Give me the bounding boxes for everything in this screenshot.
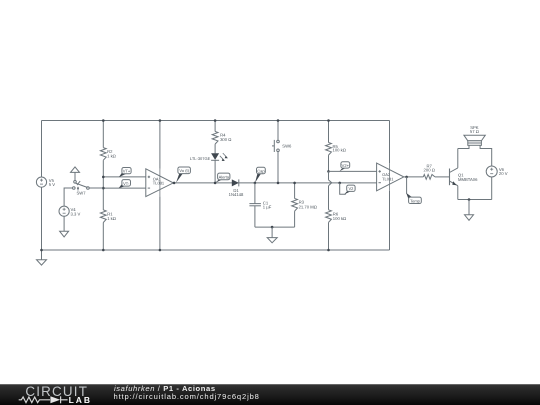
wire R5/R6 column with hop over main line — [329, 171, 332, 209]
svg-text:V2+: V2+ — [342, 163, 350, 168]
resistor R2 — [100, 148, 115, 161]
wire C1 branch upper — [254, 183, 256, 204]
svg-text:SW7: SW7 — [76, 191, 86, 196]
capacitor C1 — [249, 201, 271, 210]
svg-text:MMBTA06: MMBTA06 — [458, 177, 478, 182]
node R3 junction on main line — [293, 182, 296, 185]
svg-text:VT-: VT- — [123, 181, 130, 186]
wire R5/R6 column upper — [328, 121, 330, 143]
svg-text:VT+: VT+ — [123, 169, 131, 174]
svg-text:57 Ω: 57 Ω — [470, 129, 479, 134]
resistor R1 — [100, 210, 116, 223]
wire SW6 branch upper — [277, 121, 279, 141]
resistor R3 — [292, 199, 317, 212]
node OA1 power bottom junction — [159, 249, 162, 252]
wire SW6 branch lower — [277, 152, 279, 183]
svg-text:SW6: SW6 — [282, 144, 292, 149]
switch SW6 (pushbutton) — [272, 140, 292, 152]
node V2+ junction — [327, 170, 330, 173]
wire R4 to LED — [214, 144, 216, 153]
svg-text:V2: V2 — [348, 186, 354, 191]
wire LED branch upper (to R4) — [214, 121, 216, 132]
wire C1/R3 bottom link — [255, 226, 295, 228]
wire VT- stub to OA1 - — [103, 187, 146, 189]
svg-text:300 Ω: 300 Ω — [220, 137, 231, 142]
wire top rail — [42, 120, 390, 122]
wire VT+ stub to OA1 + — [103, 176, 146, 178]
ground (main, bottom left) — [37, 250, 47, 265]
svg-text:Vo (t): Vo (t) — [179, 168, 189, 173]
flag Alerta — [215, 173, 230, 183]
wire divider column upper (to R2) — [102, 121, 104, 148]
wire R5 to junction — [328, 155, 330, 171]
svg-text:20 V: 20 V — [499, 171, 508, 176]
wire R6 to bottom rail — [328, 222, 330, 250]
flag V2 with bent leader — [340, 183, 355, 195]
op-amp OA2 — [377, 163, 404, 191]
node R5 top junction — [327, 119, 330, 122]
node LED branch top junction — [214, 119, 217, 122]
switch SW7 — [73, 181, 90, 196]
wire speaker right pin to V6 — [480, 145, 492, 166]
svg-text:Temp: Temp — [410, 198, 421, 203]
node OA2 output junction — [405, 176, 408, 179]
node Q1 ground junction — [468, 198, 471, 201]
resistor R6 — [326, 210, 347, 223]
wire OA2 output to R7 — [404, 176, 424, 178]
flag VT+ — [119, 168, 131, 178]
node SW6 junction on main line — [277, 182, 280, 185]
LED D2 LTL-307GE — [190, 153, 228, 161]
svg-text:21.70 MΩ: 21.70 MΩ — [299, 204, 317, 209]
resistor R7 — [423, 163, 435, 179]
node sub ground junction — [271, 226, 274, 229]
op-amp OA1 — [146, 169, 174, 197]
wire divider column lower — [102, 223, 104, 251]
wire collector to speaker left pin — [458, 145, 469, 148]
svg-text:100 kΩ: 100 kΩ — [333, 148, 346, 153]
wire Q1 collector up — [457, 149, 459, 168]
flag Cap — [255, 167, 265, 182]
wire OA1 power rail (vertical through op-amp) — [159, 121, 161, 251]
svg-text:100 kΩ: 100 kΩ — [333, 216, 346, 221]
footer bar — [0, 384, 540, 405]
voltage source V4 — [59, 206, 80, 216]
flag Temp with leader — [406, 177, 421, 204]
svg-text:3.3 V: 3.3 V — [71, 211, 81, 216]
ground (C1/R3) — [267, 227, 277, 243]
wire V2+ to OA2 + input — [329, 170, 377, 172]
node main bottom-left junction — [40, 249, 43, 252]
voltage source V6 — [486, 166, 508, 177]
voltage source V5 — [36, 177, 55, 187]
wire OA2 power rail / main loop right edge — [389, 121, 391, 251]
node LED junction — [214, 182, 217, 185]
node OA1 output — [173, 182, 176, 185]
svg-text:1N4148: 1N4148 — [229, 192, 244, 197]
ground (Q1/V6) — [465, 200, 474, 221]
svg-text:Alerta: Alerta — [219, 174, 230, 179]
wire bottom rail — [42, 249, 390, 251]
resistor R4 — [212, 132, 231, 145]
wire C1 branch lower — [254, 206, 256, 227]
wire V4 to ground — [63, 216, 65, 231]
wire OA1 output main line to OA2 — [173, 182, 376, 184]
flag VT- — [119, 180, 131, 189]
wire R3 branch lower — [294, 211, 296, 227]
wire divider column middle — [102, 160, 104, 210]
node OA1 power top junction — [159, 119, 162, 122]
wire left edge bottom (from V5) — [41, 187, 43, 250]
resistor R5 — [326, 143, 346, 156]
svg-text:TL081: TL081 — [153, 181, 165, 186]
svg-text:5 V: 5 V — [49, 182, 55, 187]
footer attribution text — [114, 384, 216, 393]
svg-text:TL081: TL081 — [382, 176, 394, 181]
node divider top junction — [102, 119, 105, 122]
svg-text:LTL-307GE: LTL-307GE — [190, 156, 211, 161]
speaker SPK 57ohm — [464, 125, 485, 146]
node V2 flag junction on main line — [338, 182, 341, 185]
node SW6 top junction — [277, 119, 280, 122]
svg-text:Cap: Cap — [257, 169, 265, 174]
node R6 bottom junction — [327, 249, 330, 252]
wire LED to main line — [214, 160, 216, 183]
node divider bottom junction — [102, 249, 105, 252]
wire V6 down — [491, 177, 493, 200]
svg-text:1 µF: 1 µF — [263, 204, 272, 209]
wire Q1 bottom link — [458, 199, 492, 201]
flag V2+ — [340, 162, 350, 171]
wire Q1 emitter down — [457, 186, 459, 200]
wire R3 branch upper — [294, 183, 296, 199]
node C1 junction on main line — [254, 182, 257, 185]
node VT+ junction — [102, 176, 105, 179]
node VT- junction — [102, 187, 105, 190]
net flag above SW7 (up triangle) — [71, 167, 80, 180]
wire R7 to Q1 base — [435, 176, 449, 178]
svg-text:1 kΩ: 1 kΩ — [107, 216, 116, 221]
svg-text:1 kΩ: 1 kΩ — [107, 154, 116, 159]
wire SW7 left to V4 — [64, 188, 72, 206]
wire SW7 right to divider — [89, 187, 103, 189]
svg-text:200 Ω: 200 Ω — [424, 168, 435, 173]
transistor Q1 MMBTA06 — [450, 168, 479, 186]
ground (V4) — [60, 231, 69, 237]
wire left edge top (to V5) — [41, 121, 43, 178]
flag Vo (t) — [176, 167, 190, 183]
diode D1 1N4148 — [229, 179, 244, 197]
